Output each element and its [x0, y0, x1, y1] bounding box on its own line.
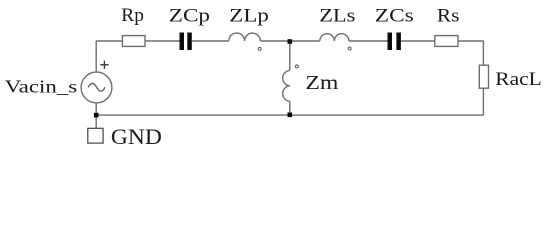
svg-text:Rp: Rp: [121, 5, 144, 26]
svg-text:ZCs: ZCs: [375, 5, 414, 26]
svg-text:RacL: RacL: [495, 69, 541, 90]
svg-text:ZLs: ZLs: [319, 5, 355, 26]
svg-text:Zm: Zm: [305, 71, 338, 94]
svg-text:ZCp: ZCp: [169, 4, 210, 26]
svg-text:Rs: Rs: [437, 5, 460, 26]
svg-text:Vacin_s: Vacin_s: [5, 78, 77, 97]
svg-text:ZLp: ZLp: [229, 4, 269, 26]
svg-text:GND: GND: [111, 125, 162, 149]
